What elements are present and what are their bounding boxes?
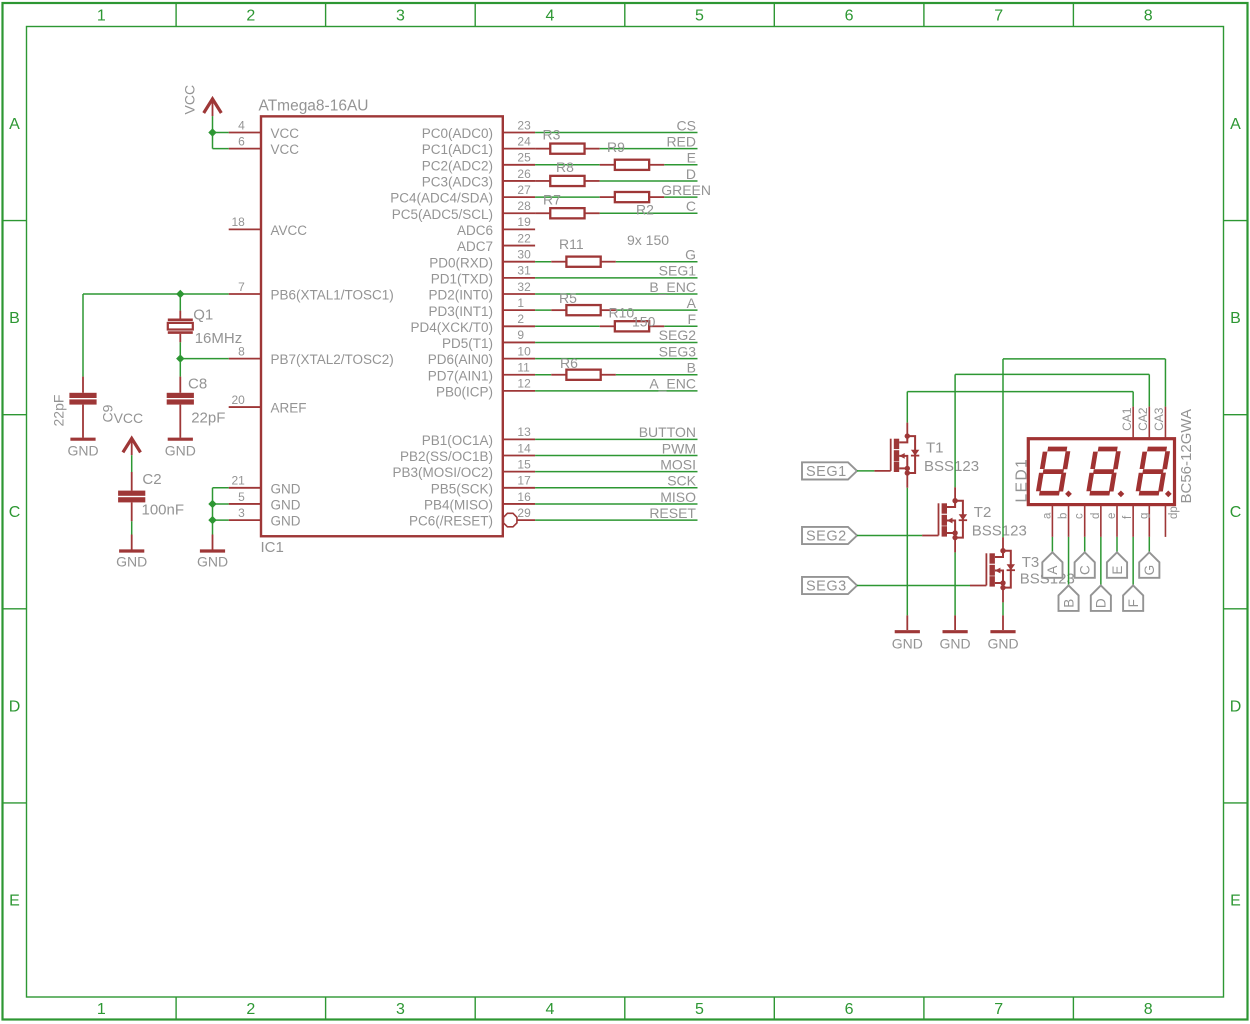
wire f to flag F [1132, 537, 1134, 586]
display pin g [1148, 505, 1150, 537]
svg-text:PD6(AIN0): PD6(AIN0) [428, 352, 493, 367]
IC1 pin 1 PD3(INT1) [503, 309, 535, 311]
IC1 pin 11 PD7(AIN1) [503, 374, 535, 376]
svg-text:30: 30 [517, 248, 531, 262]
svg-text:SEG1: SEG1 [806, 464, 847, 480]
display pin dp [1164, 505, 1166, 537]
wire c to flag C [1084, 537, 1086, 552]
svg-text:A_ENC: A_ENC [649, 376, 696, 392]
svg-text:10: 10 [517, 344, 531, 358]
net flag E [1107, 552, 1127, 578]
svg-text:F: F [687, 311, 696, 327]
svg-text:17: 17 [517, 474, 531, 488]
display pin e [1116, 505, 1118, 537]
svg-text:IC1: IC1 [261, 539, 284, 556]
svg-text:GND: GND [987, 636, 1018, 652]
wire T3 drain to CA3 [1002, 359, 1004, 537]
net flag G [1139, 552, 1159, 578]
svg-text:A: A [687, 295, 697, 311]
capacitor C9 [69, 393, 96, 398]
wire PB7 net [180, 358, 228, 360]
IC1 pin 27 PC4(ADC4/SDA) [503, 196, 535, 198]
wire T1 drain to CA1 [906, 392, 908, 423]
svg-text:21: 21 [231, 474, 245, 488]
svg-text:PB1(OC1A): PB1(OC1A) [422, 433, 493, 448]
wire to C8 [179, 359, 181, 377]
svg-text:GND: GND [892, 636, 923, 652]
ground T1 [895, 630, 920, 633]
svg-text:PC3(ADC3): PC3(ADC3) [422, 175, 493, 190]
net flag SEG2 [802, 527, 857, 544]
wire net RED row pin 24 [535, 148, 550, 150]
svg-text:PD4(XCK/T0): PD4(XCK/T0) [410, 320, 493, 335]
IC1 pin 14 PB2(SS/OC1B) [503, 455, 535, 457]
svg-text:7: 7 [994, 1001, 1003, 1018]
wire T1 source to GND [906, 488, 908, 616]
svg-text:PC1(ADC1): PC1(ADC1) [422, 142, 493, 157]
wire net CS row pin 23 [535, 132, 697, 134]
svg-text:15: 15 [517, 457, 531, 471]
net flag F [1123, 585, 1143, 611]
svg-text:31: 31 [517, 264, 531, 278]
wire net B_ENC row pin 32 [535, 293, 697, 295]
svg-text:PD3(INT1): PD3(INT1) [428, 304, 493, 319]
svg-text:22pF: 22pF [191, 410, 225, 427]
display LED1 box [1028, 439, 1174, 505]
IC1 pin 8 PB7(XTAL2/TOSC2) [229, 358, 261, 360]
wire to C9 [82, 294, 84, 377]
svg-text:9: 9 [517, 328, 524, 342]
wire net D row pin 26 [535, 180, 550, 182]
svg-text:BC56-12GWA: BC56-12GWA [1178, 409, 1195, 503]
junction PB7-crystal [176, 354, 184, 362]
display digit 1 [1038, 449, 1068, 493]
svg-text:6: 6 [238, 135, 245, 149]
IC1 pin 16 PB4(MISO) [503, 503, 535, 505]
IC1 pin 2 PD4(XCK/T0) [503, 325, 535, 327]
wire d to flag D [1100, 537, 1102, 586]
svg-text:PB7(XTAL2/TOSC2): PB7(XTAL2/TOSC2) [271, 352, 394, 367]
net flag B [1059, 585, 1079, 611]
IC1 pin 32 PD2(INT0) [503, 293, 535, 295]
svg-text:T2: T2 [974, 504, 992, 521]
wire net SCK row pin 17 [535, 487, 697, 489]
svg-text:SEG3: SEG3 [659, 343, 697, 359]
svg-text:A: A [1045, 566, 1060, 575]
display pin a [1051, 505, 1053, 537]
IC1 pin 26 PC3(ADC3) [503, 180, 535, 182]
wire net F row pin 2 [535, 325, 600, 327]
IC1 pin 21 GND [229, 487, 261, 489]
svg-text:2: 2 [246, 1001, 255, 1018]
junction VCC [208, 128, 216, 136]
svg-text:16MHz: 16MHz [195, 330, 243, 347]
svg-text:12: 12 [517, 377, 531, 391]
svg-text:11: 11 [517, 361, 530, 375]
display digit 2 [1088, 449, 1118, 493]
IC IC1 ATmega8-16AU box [261, 116, 503, 536]
svg-text:B: B [1230, 310, 1241, 327]
svg-text:VCC: VCC [271, 142, 300, 157]
svg-text:c: c [1074, 513, 1086, 519]
svg-text:MISO: MISO [660, 489, 696, 505]
svg-text:VCC: VCC [114, 410, 144, 426]
svg-text:18: 18 [231, 215, 245, 229]
wire GND pins 21-5-3 [213, 487, 229, 489]
display pin d [1100, 505, 1102, 537]
IC1 pin 29 PC6(/RESET) [503, 513, 516, 526]
svg-text:VCC: VCC [182, 85, 198, 115]
svg-text:R10: R10 [609, 305, 635, 321]
svg-text:C: C [1230, 504, 1242, 521]
svg-text:AVCC: AVCC [271, 223, 308, 238]
wire PB6 net [83, 293, 229, 295]
svg-text:32: 32 [517, 280, 531, 294]
display pin b [1068, 505, 1070, 537]
supply VCC arrow top [204, 99, 222, 113]
svg-text:F: F [1126, 599, 1141, 607]
svg-text:100nF: 100nF [142, 502, 185, 519]
display dp 3 [1165, 491, 1172, 498]
svg-text:PB5(SCK): PB5(SCK) [431, 481, 493, 496]
wire C2 to gnd [131, 502, 133, 521]
transistor T3 BSS123 [985, 553, 987, 585]
svg-text:SCK: SCK [667, 473, 696, 489]
IC1 pin 13 PB1(OC1A) [503, 438, 535, 440]
svg-text:3: 3 [238, 506, 245, 520]
svg-text:150: 150 [632, 314, 656, 330]
svg-text:R2: R2 [636, 202, 654, 218]
svg-text:PD7(AIN1): PD7(AIN1) [428, 368, 493, 383]
svg-text:3: 3 [396, 8, 405, 25]
svg-text:Q1: Q1 [193, 307, 213, 324]
svg-text:RED: RED [666, 134, 696, 150]
ground T2 [943, 630, 968, 633]
svg-text:G: G [685, 247, 696, 263]
svg-text:5: 5 [238, 490, 245, 504]
svg-text:R8: R8 [556, 159, 574, 175]
svg-text:C2: C2 [142, 471, 161, 488]
svg-text:4: 4 [238, 118, 245, 132]
svg-text:C8: C8 [188, 376, 207, 393]
svg-text:7: 7 [238, 280, 245, 294]
IC1 pin 5 GND [229, 503, 261, 505]
svg-text:PB2(SS/OC1B): PB2(SS/OC1B) [400, 449, 493, 464]
junction GND pin5 [208, 500, 216, 508]
svg-text:GND: GND [67, 442, 98, 458]
wire net B row pin 11 [535, 374, 551, 376]
svg-text:23: 23 [517, 118, 531, 132]
svg-text:7: 7 [994, 8, 1003, 25]
svg-text:SEG2: SEG2 [659, 327, 697, 343]
IC1 pin 10 PD6(AIN0) [503, 358, 535, 360]
svg-text:GND: GND [116, 554, 147, 570]
svg-text:B: B [9, 310, 20, 327]
IC1 pin 24 PC1(ADC1) [503, 148, 535, 150]
svg-text:BUTTON: BUTTON [639, 424, 696, 440]
ground C8 [168, 438, 193, 441]
svg-text:28: 28 [517, 199, 531, 213]
wire net PWM row pin 14 [535, 455, 697, 457]
svg-text:ATmega8-16AU: ATmega8-16AU [259, 98, 369, 115]
svg-text:E: E [687, 150, 696, 166]
svg-text:PC0(ADC0): PC0(ADC0) [422, 126, 493, 141]
svg-text:26: 26 [517, 167, 531, 181]
wire SEG3 to T3 gate [857, 585, 970, 587]
svg-text:4: 4 [546, 8, 555, 25]
wire net RESET row pin 29 [535, 519, 697, 521]
capacitor C2 [118, 491, 145, 496]
wire T2 drain to CA2 [954, 374, 956, 487]
svg-text:ADC6: ADC6 [457, 223, 493, 238]
wire net C row pin 28 [535, 212, 550, 214]
wire SEG2 to T2 gate [857, 535, 922, 537]
IC1 pin 23 PC0(ADC0) [503, 132, 535, 134]
svg-text:GND: GND [165, 442, 196, 458]
svg-text:2: 2 [246, 8, 255, 25]
svg-text:PD2(INT0): PD2(INT0) [428, 288, 493, 303]
IC1 pin 3 GND [229, 519, 261, 521]
wire b to flag B [1068, 537, 1070, 586]
svg-text:R5: R5 [559, 290, 577, 306]
net flag D [1091, 585, 1111, 611]
svg-text:PB3(MOSI/OC2): PB3(MOSI/OC2) [392, 465, 493, 480]
wire net G row pin 30 [535, 261, 551, 263]
wire e to flag E [1116, 537, 1118, 552]
IC1 pin 7 PB6(XTAL1/TOSC1) [229, 293, 261, 295]
junction GND pin3 [208, 516, 216, 524]
svg-text:8: 8 [1144, 1001, 1153, 1018]
display pin CA2 [1148, 407, 1150, 439]
net flag A [1042, 552, 1062, 578]
IC1 pin 19 ADC6 [503, 228, 535, 230]
svg-text:dp: dp [1168, 506, 1180, 519]
display pin CA1 [1132, 407, 1134, 439]
svg-text:MOSI: MOSI [660, 456, 696, 472]
transistor T1 BSS123 [890, 439, 892, 471]
ground IC [200, 549, 225, 552]
svg-text:GND: GND [271, 481, 301, 496]
wire net MISO row pin 16 [535, 503, 697, 505]
svg-text:R3: R3 [543, 127, 561, 143]
svg-text:AREF: AREF [271, 401, 307, 416]
crystal Q1 [168, 318, 193, 321]
svg-text:E: E [1110, 566, 1125, 575]
svg-text:A: A [9, 116, 20, 133]
wire net MOSI row pin 15 [535, 471, 697, 473]
wire VCC to C2 [131, 455, 133, 472]
svg-text:R7: R7 [543, 192, 561, 208]
svg-text:5: 5 [695, 8, 704, 25]
svg-text:E: E [1230, 892, 1241, 909]
svg-text:D: D [1230, 698, 1242, 715]
svg-text:6: 6 [845, 1001, 854, 1018]
ground T3 [990, 630, 1015, 633]
svg-text:VCC: VCC [271, 126, 300, 141]
junction PB6-crystal [176, 290, 184, 298]
svg-text:SEG3: SEG3 [806, 579, 847, 595]
frame tick marks [175, 3, 177, 27]
svg-text:1: 1 [517, 296, 524, 310]
svg-text:T1: T1 [926, 440, 944, 457]
wire net SEG3 row pin 10 [535, 358, 697, 360]
svg-text:PC2(ADC2): PC2(ADC2) [422, 158, 493, 173]
IC1 pin 9 PD5(T1) [503, 341, 535, 343]
svg-text:20: 20 [231, 393, 245, 407]
svg-text:E: E [9, 892, 20, 909]
wire crystal bottom [179, 334, 181, 343]
svg-text:SEG2: SEG2 [806, 529, 847, 545]
wire a to flag A [1051, 537, 1053, 552]
wire crystal top [179, 294, 181, 311]
svg-text:GND: GND [940, 636, 971, 652]
svg-text:GND: GND [197, 554, 228, 570]
svg-text:D: D [1094, 598, 1109, 608]
wire net BUTTON row pin 13 [535, 438, 697, 440]
svg-text:16: 16 [517, 490, 531, 504]
svg-text:5: 5 [695, 1001, 704, 1018]
svg-text:SEG1: SEG1 [659, 263, 697, 279]
svg-text:BSS123: BSS123 [972, 523, 1027, 540]
svg-text:CA3: CA3 [1152, 407, 1166, 431]
supply VCC arrow C2 [123, 438, 141, 452]
wire net GREEN row pin 27 [535, 196, 600, 198]
wire net SEG1 row pin 31 [535, 277, 697, 279]
svg-text:25: 25 [517, 151, 531, 165]
net flag C [1075, 552, 1095, 578]
svg-text:PB0(ICP): PB0(ICP) [436, 385, 493, 400]
IC1 pin 18 AVCC [229, 228, 261, 230]
net flag SEG1 [802, 462, 857, 479]
svg-text:19: 19 [517, 215, 531, 229]
svg-text:PWM: PWM [662, 440, 696, 456]
wire C8 to gnd [179, 405, 181, 438]
IC1 pin 15 PB3(MOSI/OC2) [503, 471, 535, 473]
svg-text:PC6(/RESET): PC6(/RESET) [409, 514, 493, 529]
display pin c [1084, 505, 1086, 537]
wire VCC to pins 4,6 [212, 116, 214, 132]
wire net A row pin 1 [535, 309, 551, 311]
display dp 1 [1065, 491, 1072, 498]
svg-text:B_ENC: B_ENC [649, 279, 696, 295]
display pin CA3 [1164, 407, 1166, 439]
svg-text:CA1: CA1 [1120, 407, 1134, 431]
svg-text:R11: R11 [559, 236, 584, 252]
svg-text:PC5(ADC5/SCL): PC5(ADC5/SCL) [392, 207, 493, 222]
svg-text:GND: GND [271, 514, 301, 529]
svg-text:22: 22 [517, 231, 531, 245]
svg-text:C: C [1078, 565, 1093, 575]
svg-text:A: A [1230, 116, 1241, 133]
wire net A_ENC row pin 12 [535, 390, 697, 392]
net flag SEG3 [802, 577, 857, 594]
wire C9 to gnd [82, 405, 84, 438]
svg-text:PC4(ADC4/SDA): PC4(ADC4/SDA) [390, 191, 493, 206]
ground C9 [70, 438, 95, 441]
svg-text:BSS123: BSS123 [924, 458, 979, 475]
svg-text:D: D [9, 698, 21, 715]
svg-text:8: 8 [1144, 8, 1153, 25]
svg-text:T3: T3 [1022, 554, 1040, 571]
svg-text:CA2: CA2 [1136, 407, 1150, 431]
svg-text:PD1(TXD): PD1(TXD) [431, 272, 493, 287]
IC1 pin 17 PB5(SCK) [503, 487, 535, 489]
svg-text:2: 2 [517, 312, 524, 326]
ground C2 [119, 549, 144, 552]
svg-text:a: a [1041, 512, 1053, 519]
svg-text:24: 24 [517, 135, 531, 149]
transistor T2 BSS123 [938, 503, 940, 535]
svg-text:22pF: 22pF [51, 395, 67, 427]
IC1 pin 6 VCC [229, 148, 261, 150]
wire T2 source to GND [954, 552, 956, 615]
wire T3 source to GND [1002, 602, 1004, 615]
svg-text:13: 13 [517, 425, 531, 439]
svg-text:1: 1 [97, 1001, 106, 1018]
svg-text:CS: CS [677, 117, 696, 133]
svg-text:D: D [686, 166, 696, 182]
IC1 pin 22 ADC7 [503, 245, 535, 247]
svg-text:PD0(RXD): PD0(RXD) [429, 255, 493, 270]
svg-text:g: g [1138, 513, 1150, 519]
svg-text:29: 29 [517, 506, 531, 520]
svg-text:C: C [686, 198, 696, 214]
svg-text:27: 27 [517, 183, 531, 197]
svg-text:PB6(XTAL1/TOSC1): PB6(XTAL1/TOSC1) [271, 288, 394, 303]
svg-text:RESET: RESET [649, 505, 696, 521]
display pin f [1132, 505, 1134, 537]
IC1 pin 31 PD1(TXD) [503, 277, 535, 279]
IC1 pin 4 VCC [229, 132, 261, 134]
wire SEG1 to T1 gate [857, 470, 874, 472]
svg-text:G: G [1142, 565, 1157, 576]
display dp 2 [1118, 491, 1125, 498]
svg-text:R9: R9 [607, 139, 625, 155]
IC1 pin 25 PC2(ADC2) [503, 164, 535, 166]
svg-text:PB4(MISO): PB4(MISO) [424, 498, 493, 513]
svg-text:LED1: LED1 [1014, 458, 1031, 503]
svg-text:6: 6 [845, 8, 854, 25]
svg-text:e: e [1106, 513, 1118, 519]
svg-text:14: 14 [517, 441, 531, 455]
svg-text:d: d [1090, 513, 1102, 519]
svg-text:GREEN: GREEN [661, 182, 711, 198]
svg-text:C: C [9, 504, 21, 521]
wire net E row pin 25 [535, 164, 600, 166]
IC1 pin 28 PC5(ADC5/SCL) [503, 212, 535, 214]
svg-text:B: B [687, 360, 696, 376]
svg-text:ADC7: ADC7 [457, 239, 493, 254]
svg-text:1: 1 [97, 8, 106, 25]
svg-text:b: b [1058, 513, 1070, 519]
IC1 pin 12 PB0(ICP) [503, 390, 535, 392]
svg-text:R6: R6 [560, 355, 578, 371]
svg-text:B: B [1061, 599, 1076, 608]
svg-text:PD5(T1): PD5(T1) [442, 336, 493, 351]
IC1 pin 20 AREF [229, 406, 261, 408]
svg-text:4: 4 [546, 1001, 555, 1018]
svg-text:9x 150: 9x 150 [627, 232, 669, 248]
capacitor C8 [167, 393, 194, 398]
wire net SEG2 row pin 9 [535, 341, 697, 343]
IC1 pin 30 PD0(RXD) [503, 261, 535, 263]
svg-text:GND: GND [271, 498, 301, 513]
wire g to flag G [1148, 537, 1150, 552]
display digit 3 [1138, 449, 1168, 493]
svg-text:3: 3 [396, 1001, 405, 1018]
